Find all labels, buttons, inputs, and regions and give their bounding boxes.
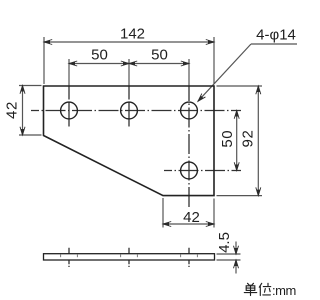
svg-text:4-φ14: 4-φ14 [256, 27, 296, 44]
svg-text:42: 42 [4, 101, 21, 119]
svg-text:92: 92 [240, 130, 257, 148]
svg-text:50: 50 [91, 47, 108, 64]
svg-text:42: 42 [183, 209, 200, 226]
svg-text::mm: :mm [272, 283, 296, 298]
svg-text:50: 50 [219, 130, 236, 148]
svg-text:50: 50 [151, 47, 168, 64]
svg-text:142: 142 [120, 26, 145, 43]
svg-text:4.5: 4.5 [216, 232, 233, 253]
